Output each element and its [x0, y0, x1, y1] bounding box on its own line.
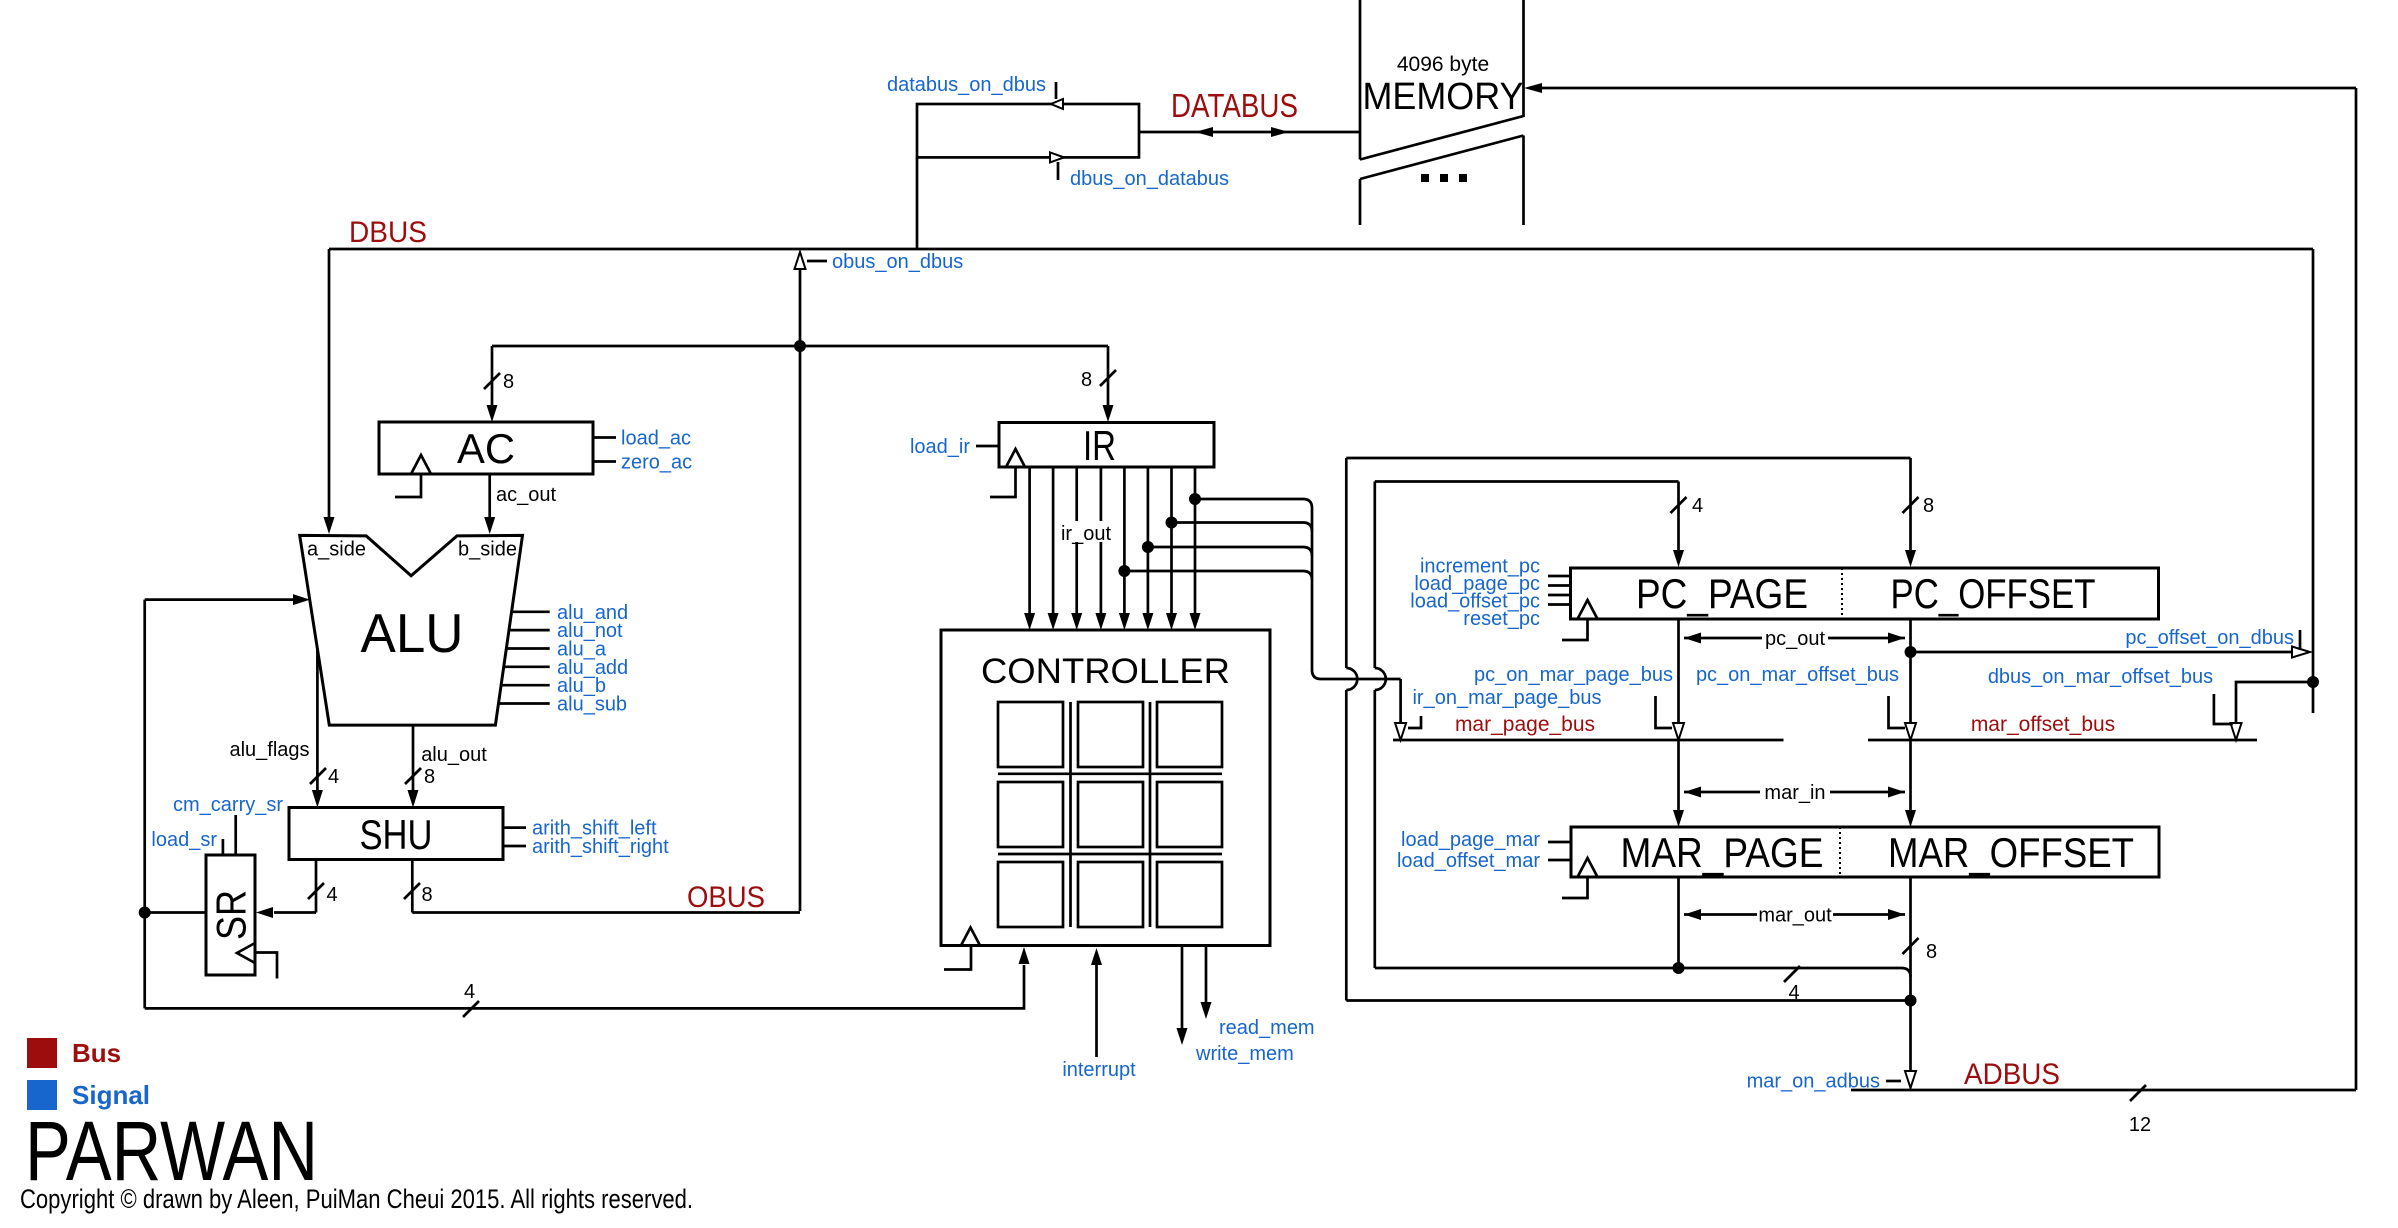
svg-text:12: 12 — [2129, 1114, 2151, 1136]
wire ir_out lines to controller — [1024, 467, 1200, 630]
svg-text:dbus_on_databus: dbus_on_databus — [1070, 168, 1229, 190]
svg-text:pc_offset_on_dbus: pc_offset_on_dbus — [2125, 627, 2294, 649]
svg-text:CONTROLLER: CONTROLLER — [981, 652, 1230, 691]
svg-text:Copyright © drawn by Aleen, Pu: Copyright © drawn by Aleen, PuiMan Cheui… — [20, 1184, 693, 1214]
node ir_out branch junctions — [1189, 493, 1201, 505]
node dbus_on_mar_offset junction — [2307, 676, 2319, 688]
bus DATABUS bidirectional wire — [1139, 87, 1360, 137]
svg-text:DATABUS: DATABUS — [1171, 87, 1298, 124]
wire IR input 8 — [1081, 346, 1116, 422]
signal load_page_mar — [1401, 829, 1571, 851]
wire pc_page to mar_page_bus — [1673, 619, 1684, 740]
wire mar_in double arrow — [1684, 782, 1905, 804]
alu U ALU trapezoid — [300, 535, 523, 725]
svg-text:8: 8 — [421, 884, 432, 906]
svg-text:4: 4 — [326, 884, 337, 906]
svg-text:4: 4 — [464, 981, 475, 1003]
svg-text:pc_out: pc_out — [1765, 628, 1825, 650]
signal databus_on_dbus — [887, 74, 1056, 99]
node DBUS-AC/IR branch junction — [794, 340, 806, 352]
signal alu_a — [506, 639, 607, 661]
wire pc_offset input 8 — [1903, 458, 1935, 567]
svg-text:DBUS: DBUS — [349, 216, 427, 249]
svg-text:pc_on_mar_offset_bus: pc_on_mar_offset_bus — [1696, 664, 1899, 686]
svg-text:SR: SR — [208, 890, 255, 940]
svg-text:MEMORY: MEMORY — [1363, 76, 1524, 118]
memory block MEMORY — [1360, 0, 1524, 225]
svg-text:a_side: a_side — [307, 539, 366, 561]
svg-text:IR: IR — [1083, 422, 1116, 469]
svg-text:load_offset_mar: load_offset_mar — [1397, 850, 1540, 872]
wire ac_out — [484, 474, 556, 534]
signal load_offset_pc — [1410, 591, 1570, 613]
node pc_offset_on_dbus junction — [1905, 646, 1917, 658]
wire SR to ALU a_side input — [145, 594, 310, 605]
svg-text:zero_ac: zero_ac — [621, 452, 692, 474]
signal dbus_on_databus — [1058, 162, 1229, 190]
wire SHU flags out 4 to SR — [256, 860, 338, 919]
bus OBUS wire — [404, 860, 800, 915]
signal arith_shift_right — [503, 836, 669, 858]
svg-text:8: 8 — [424, 766, 435, 788]
node mar_out adbus junction — [1905, 995, 1917, 1007]
bus mar_offset_bus — [1868, 713, 2257, 740]
svg-text:ALU: ALU — [361, 602, 464, 664]
svg-text:PC_PAGE: PC_PAGE — [1636, 570, 1808, 617]
controller grid cross lines — [998, 702, 1222, 927]
controller CONTROLLER — [941, 630, 1270, 970]
shifter SHU — [289, 808, 503, 860]
svg-text:mar_offset_bus: mar_offset_bus — [1971, 713, 2115, 736]
svg-text:mar_in: mar_in — [1764, 782, 1825, 804]
signal increment_pc — [1420, 556, 1571, 578]
svg-text:4: 4 — [328, 766, 339, 788]
svg-text:4: 4 — [1788, 982, 1799, 1004]
signal load_sr — [151, 829, 223, 855]
wire flags feedback 4 to controller — [145, 947, 1030, 1017]
wire alu_out 8 — [405, 725, 487, 807]
register IR — [990, 422, 1214, 497]
wire mar_offset drop 8 to ADBUS — [1903, 877, 1938, 1088]
svg-text:ir_on_mar_page_bus: ir_on_mar_page_bus — [1412, 687, 1601, 709]
svg-text:SHU: SHU — [360, 811, 433, 858]
svg-text:load_sr: load_sr — [151, 829, 217, 851]
svg-text:load_ir: load_ir — [910, 436, 970, 458]
svg-text:ADBUS: ADBUS — [1964, 1058, 2060, 1091]
svg-text:dbus_on_mar_offset_bus: dbus_on_mar_offset_bus — [1988, 666, 2213, 688]
signal load_ir — [910, 436, 999, 458]
svg-text:MAR_PAGE: MAR_PAGE — [1621, 829, 1824, 876]
wire outer feedback loop mar_offset to pc_offset — [1346, 458, 1910, 1001]
wire alu_flags 4 — [229, 649, 339, 808]
svg-text:OBUS: OBUS — [687, 881, 765, 914]
svg-text:alu_out: alu_out — [421, 744, 487, 766]
signal load_ac — [593, 428, 691, 450]
register PC_PAGE PC_OFFSET — [1562, 568, 2159, 640]
wire obus_on_dbus vertical riser — [795, 252, 828, 911]
svg-text:arith_shift_right: arith_shift_right — [532, 836, 669, 858]
svg-text:ac_out: ac_out — [496, 484, 556, 506]
svg-text:interrupt: interrupt — [1062, 1059, 1136, 1081]
legend Signal — [27, 1080, 150, 1110]
signal alu_b — [501, 675, 606, 697]
svg-text:obus_on_dbus: obus_on_dbus — [832, 251, 963, 273]
svg-text:pc_on_mar_page_bus: pc_on_mar_page_bus — [1474, 664, 1673, 686]
bus ADBUS — [1851, 88, 2356, 1136]
wire branch to AC and IR — [492, 345, 1108, 348]
wire pc_out double arrow — [1684, 628, 1905, 650]
svg-text:b_side: b_side — [458, 539, 517, 561]
svg-text:load_page_mar: load_page_mar — [1401, 829, 1540, 851]
wire SR output to junction — [145, 911, 206, 914]
node mar_page feedback junction — [1673, 962, 1685, 974]
svg-text:cm_carry_sr: cm_carry_sr — [173, 794, 283, 816]
wire memory address input from ADBUS — [1524, 83, 2356, 93]
signal read_mem — [1201, 946, 1315, 1040]
wire pc_offset to mar_offset_bus — [1905, 619, 1916, 740]
signal load_page_pc — [1414, 573, 1570, 595]
svg-text:write_mem: write_mem — [1195, 1043, 1294, 1065]
wire dbus to mar_offset_bus — [2231, 682, 2314, 740]
wire mar_page_bus to MAR_PAGE — [1673, 740, 1684, 827]
signal alu_and — [511, 602, 628, 624]
register AC — [379, 422, 593, 497]
svg-text:mar_page_bus: mar_page_bus — [1455, 713, 1595, 736]
svg-text:load_ac: load_ac — [621, 428, 691, 450]
svg-text:4: 4 — [1692, 495, 1703, 517]
svg-text:ir_out: ir_out — [1061, 523, 1111, 545]
signal ir_on_mar_page_bus — [1408, 687, 1602, 728]
signal mar_on_adbus — [1747, 1071, 1901, 1093]
wire pc_page input 4 — [1671, 482, 1704, 568]
wire mar_page drop — [1677, 877, 1680, 968]
legend Bus — [27, 1038, 121, 1068]
signal arith_shift_left — [503, 818, 657, 840]
wire ir_out branch bundle to mar_page_bus — [1124, 499, 1406, 740]
signal reset_pc — [1463, 605, 1570, 631]
signal alu_sub — [498, 694, 627, 716]
signal dbus_on_mar_offset_bus — [1988, 666, 2233, 724]
svg-text:Bus: Bus — [72, 1038, 121, 1068]
svg-text:AC: AC — [457, 425, 515, 472]
svg-text:8: 8 — [1926, 941, 1937, 963]
label ir_out — [1058, 521, 1114, 545]
wire inner feedback loop mar_page to pc_page — [1375, 482, 1911, 1005]
svg-text:read_mem: read_mem — [1219, 1017, 1315, 1039]
signal pc_on_mar_page_bus — [1474, 664, 1673, 728]
signal alu_not — [509, 620, 623, 642]
register SR — [206, 855, 277, 979]
controller grid squares — [998, 702, 1222, 927]
svg-text:alu_sub: alu_sub — [557, 694, 627, 716]
svg-text:4096 byte: 4096 byte — [1397, 53, 1489, 76]
node SR output junction — [139, 907, 151, 919]
signal cm_carry_sr — [173, 794, 283, 855]
bus mar_page_bus — [1393, 713, 1784, 740]
svg-text:mar_out: mar_out — [1758, 905, 1832, 927]
register MAR_PAGE MAR_OFFSET — [1562, 827, 2159, 898]
svg-text:databus_on_dbus: databus_on_dbus — [887, 74, 1046, 96]
signal pc_on_mar_offset_bus — [1696, 664, 1905, 728]
bus DBUS main horizontal wire — [329, 216, 2313, 249]
svg-text:8: 8 — [1081, 369, 1092, 391]
signal load_offset_mar — [1397, 850, 1571, 872]
wire AC input 8 — [484, 346, 514, 422]
wire DBUS right drop — [2312, 249, 2315, 713]
svg-text:8: 8 — [1923, 495, 1934, 517]
tristate buffer pair databus/dbus — [917, 99, 1139, 162]
signal zero_ac — [593, 452, 692, 474]
svg-text:reset_pc: reset_pc — [1463, 608, 1540, 630]
signal write_mem — [1177, 946, 1294, 1066]
wire SR feedback vertical — [143, 600, 146, 1009]
wire mar_offset_bus to MAR_OFFSET — [1905, 740, 1916, 827]
signal interrupt — [1062, 948, 1136, 1081]
svg-text:PC_OFFSET: PC_OFFSET — [1891, 570, 2096, 617]
svg-text:MAR_OFFSET: MAR_OFFSET — [1888, 829, 2134, 876]
wire DBUS left drop to ALU a_side — [324, 157, 918, 534]
svg-text:8: 8 — [503, 371, 514, 393]
signal pc_offset_on_dbus wire to DBUS — [1911, 627, 2311, 658]
signal alu_add — [503, 657, 628, 679]
wire mar_out double arrow — [1684, 904, 1905, 927]
svg-text:alu_flags: alu_flags — [229, 739, 309, 761]
